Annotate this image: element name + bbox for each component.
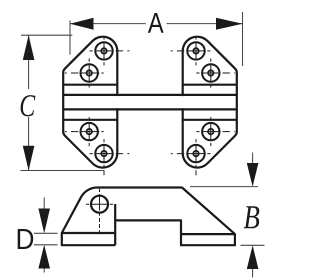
barrel white band bbox=[65, 96, 236, 108]
right plate outline bbox=[183, 37, 237, 168]
side view: lobe right edge vertical bbox=[114, 204, 116, 245]
dim B arrowhead bottom bbox=[247, 245, 259, 269]
dim C arrowhead top bbox=[23, 35, 35, 60]
dim C line bottom segment bbox=[28, 117, 30, 171]
dim C extension line top bbox=[21, 34, 72, 36]
side view: pin crosshair horizontal bbox=[86, 203, 113, 205]
dim A extension line left bbox=[69, 20, 71, 54]
hole 1 left plate top bbox=[90, 36, 130, 65]
right plate fold line top bbox=[183, 84, 237, 86]
left plate fold line top bbox=[63, 84, 117, 86]
dim D extension line top bbox=[34, 232, 58, 234]
side view: pin circle bbox=[91, 196, 108, 213]
left plate fold line bottom bbox=[63, 119, 117, 121]
side view: pin crosshair vertical bbox=[99, 189, 101, 236]
dim A arrowhead left bbox=[70, 18, 94, 30]
left plate outline bbox=[63, 37, 117, 168]
hole 8 right plate bottom bbox=[171, 139, 211, 176]
dim C extension line bottom bbox=[20, 170, 104, 172]
barrel line bottom bbox=[63, 108, 237, 110]
dim B top arrow stem bbox=[252, 153, 254, 166]
dim A line right segment bbox=[167, 23, 243, 25]
dim A line left segment bbox=[70, 23, 146, 25]
hole 2 left plate upper-mid bbox=[65, 59, 104, 88]
dim D arrowhead top bbox=[38, 209, 50, 234]
dim A arrowhead right bbox=[216, 18, 243, 30]
dim C line top segment bbox=[28, 35, 30, 89]
side view: pad top line bbox=[181, 233, 235, 235]
hole 4 left plate bottom bbox=[90, 139, 130, 175]
dim B extension line bottom bbox=[241, 244, 265, 246]
label B bbox=[244, 206, 260, 228]
label C bbox=[21, 95, 36, 116]
barrel line top bbox=[63, 94, 237, 96]
dim B arrowhead top bbox=[247, 163, 259, 187]
side view: lobe arc and outline bbox=[62, 188, 235, 246]
dim B bottom arrow stem bbox=[252, 267, 254, 278]
hole 5 right plate top bbox=[171, 36, 211, 65]
dim C arrowhead bottom bbox=[23, 146, 35, 171]
side view: foot box bbox=[62, 233, 115, 245]
dim D arrowhead bottom bbox=[38, 245, 50, 269]
label A bbox=[148, 13, 164, 33]
dim D bottom arrow stem bbox=[43, 266, 45, 273]
label D bbox=[18, 229, 34, 249]
dim A extension line right bbox=[242, 12, 244, 66]
hole 7 right plate lower-mid bbox=[196, 117, 235, 146]
right plate fold line bottom bbox=[183, 119, 237, 121]
dim D top arrow stem bbox=[43, 198, 45, 210]
dim D extension line bottom bbox=[34, 244, 58, 246]
hole 6 right plate upper-mid bbox=[196, 59, 235, 88]
hole 3 left plate lower-mid bbox=[65, 117, 104, 146]
dim B extension line top bbox=[190, 186, 258, 188]
